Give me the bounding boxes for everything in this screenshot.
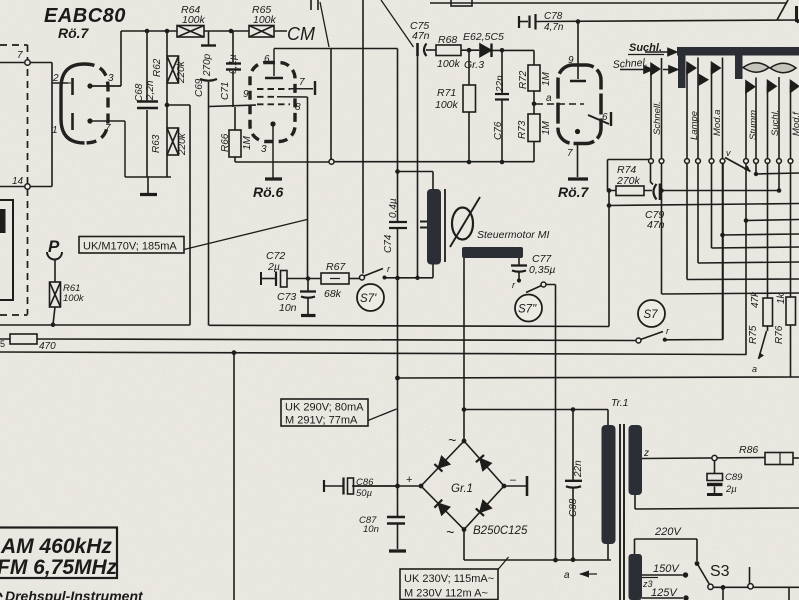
svg-text:S7: S7	[644, 309, 659, 321]
svg-text:470: 470	[39, 341, 56, 352]
svg-text:EABC80: EABC80	[44, 5, 126, 27]
svg-text:100k: 100k	[182, 14, 206, 26]
svg-text:4,7n: 4,7n	[544, 22, 564, 33]
svg-text:7: 7	[299, 77, 305, 88]
svg-text:~: ~	[446, 524, 454, 540]
svg-text:Steuermotor MI: Steuermotor MI	[477, 229, 549, 241]
svg-text:100k: 100k	[435, 99, 459, 111]
svg-text:Rö.6: Rö.6	[253, 184, 284, 200]
svg-text:2,2n: 2,2n	[145, 80, 156, 101]
svg-text:Mod.f: Mod.f	[791, 111, 799, 136]
svg-text:C76: C76	[493, 121, 504, 140]
svg-text:220k: 220k	[176, 60, 187, 84]
svg-text:AM 460kHz: AM 460kHz	[0, 535, 112, 558]
svg-text:10n: 10n	[363, 524, 379, 535]
svg-text:5: 5	[0, 339, 5, 349]
svg-text:M 291V; 77mA: M 291V; 77mA	[285, 415, 358, 427]
svg-text:10n: 10n	[279, 302, 297, 314]
svg-text:100k: 100k	[437, 58, 461, 70]
svg-text:50µ: 50µ	[356, 488, 373, 499]
svg-text:7: 7	[17, 50, 23, 61]
svg-text:C74: C74	[383, 234, 394, 253]
svg-text:C71: C71	[220, 82, 231, 100]
svg-text:Schnell.: Schnell.	[652, 101, 663, 135]
svg-text:Gr.3: Gr.3	[464, 59, 484, 71]
svg-text:100k: 100k	[63, 293, 85, 304]
svg-text:Tr.1: Tr.1	[611, 397, 629, 409]
svg-text:8: 8	[295, 102, 301, 113]
svg-text:C69: C69	[194, 78, 205, 97]
svg-text:E62,5C5: E62,5C5	[463, 31, 504, 43]
svg-text:0,1µ: 0,1µ	[228, 54, 239, 74]
svg-text:125V: 125V	[651, 587, 678, 599]
svg-text:M 230V 112m A~: M 230V 112m A~	[404, 588, 488, 600]
svg-text:9: 9	[243, 89, 249, 100]
svg-text:Rö.7: Rö.7	[58, 25, 90, 41]
svg-text:47k: 47k	[750, 291, 761, 308]
svg-text:3: 3	[261, 144, 267, 155]
svg-text:14: 14	[12, 176, 24, 187]
svg-text:7: 7	[567, 148, 573, 159]
svg-text:270k: 270k	[616, 175, 641, 187]
svg-text:Schnel.: Schnel.	[612, 57, 648, 71]
svg-text:UK/M170V; 185mA: UK/M170V; 185mA	[83, 241, 177, 253]
svg-text:R73: R73	[517, 120, 528, 139]
svg-text:7: 7	[105, 123, 111, 134]
svg-text:R76: R76	[774, 325, 785, 344]
svg-text:S3: S3	[710, 563, 730, 580]
svg-text:z: z	[643, 448, 649, 459]
svg-text:Rö.7: Rö.7	[558, 184, 590, 200]
svg-text:1M: 1M	[541, 71, 552, 86]
svg-text:100k: 100k	[253, 14, 277, 26]
svg-text:1k: 1k	[776, 292, 787, 304]
svg-text:R75: R75	[748, 325, 759, 344]
svg-text:FM 6,75MHz: FM 6,75MHz	[0, 556, 118, 579]
svg-text:6: 6	[264, 54, 270, 65]
svg-text:C88: C88	[568, 498, 579, 517]
svg-text:R71: R71	[437, 87, 456, 99]
svg-text:22n: 22n	[495, 75, 506, 93]
svg-text:2µ: 2µ	[725, 484, 737, 495]
svg-text:0,35µ: 0,35µ	[529, 264, 556, 276]
svg-text:a: a	[752, 364, 757, 374]
svg-text:150V: 150V	[653, 563, 680, 575]
svg-text:9: 9	[568, 55, 574, 66]
svg-text:Stumm: Stumm	[748, 110, 759, 140]
svg-text:z3: z3	[642, 579, 653, 589]
svg-text:–: –	[510, 474, 517, 486]
svg-text:Suchl.: Suchl.	[770, 110, 781, 136]
svg-text:1M: 1M	[541, 120, 552, 135]
svg-text:R66: R66	[220, 133, 231, 152]
svg-text:2µ: 2µ	[267, 261, 280, 273]
svg-text:Lampe: Lampe	[689, 111, 700, 140]
svg-text:S7': S7'	[360, 293, 377, 305]
svg-text:R67: R67	[326, 261, 346, 273]
svg-text:R68: R68	[438, 34, 457, 46]
svg-text:270p: 270p	[202, 53, 213, 77]
svg-text:C68: C68	[134, 83, 145, 102]
svg-text:C86: C86	[356, 477, 374, 488]
svg-text:R63: R63	[151, 134, 162, 153]
svg-text:a: a	[546, 93, 552, 104]
svg-text:0,4µ: 0,4µ	[388, 198, 399, 218]
svg-text:UK 230V; 115mA~: UK 230V; 115mA~	[404, 573, 494, 585]
svg-text:1M: 1M	[242, 135, 253, 150]
svg-text:22n: 22n	[573, 460, 584, 478]
svg-text:R86: R86	[739, 444, 758, 456]
svg-text:Mod.a: Mod.a	[712, 110, 723, 136]
svg-text:Gr.1: Gr.1	[451, 483, 473, 495]
svg-text:R62: R62	[152, 58, 163, 77]
svg-text:+: +	[406, 474, 412, 486]
svg-text:R72: R72	[518, 70, 529, 89]
svg-text:UK 290V; 80mA: UK 290V; 80mA	[285, 402, 364, 414]
svg-text:68k: 68k	[324, 288, 342, 300]
svg-text:a: a	[564, 570, 570, 581]
svg-text:Suchl.: Suchl.	[629, 42, 662, 54]
svg-text:CM: CM	[287, 24, 315, 44]
svg-text:47n: 47n	[647, 219, 665, 231]
svg-text:220k: 220k	[177, 132, 188, 156]
svg-text:C89: C89	[725, 472, 743, 483]
svg-text:~: ~	[448, 432, 456, 448]
svg-text:S7": S7"	[518, 304, 537, 316]
svg-text:C78: C78	[544, 11, 563, 22]
svg-text:47n: 47n	[412, 30, 430, 42]
svg-text:P: P	[48, 237, 60, 256]
svg-text:2: 2	[52, 73, 59, 84]
svg-text:1: 1	[52, 125, 58, 136]
svg-text:Drehspul-Instrument: Drehspul-Instrument	[5, 588, 144, 600]
svg-text:220V: 220V	[654, 526, 682, 538]
svg-text:v: v	[726, 148, 731, 158]
svg-text:6: 6	[602, 112, 608, 123]
svg-text:3: 3	[108, 73, 114, 84]
svg-text:B250C125: B250C125	[473, 525, 528, 537]
